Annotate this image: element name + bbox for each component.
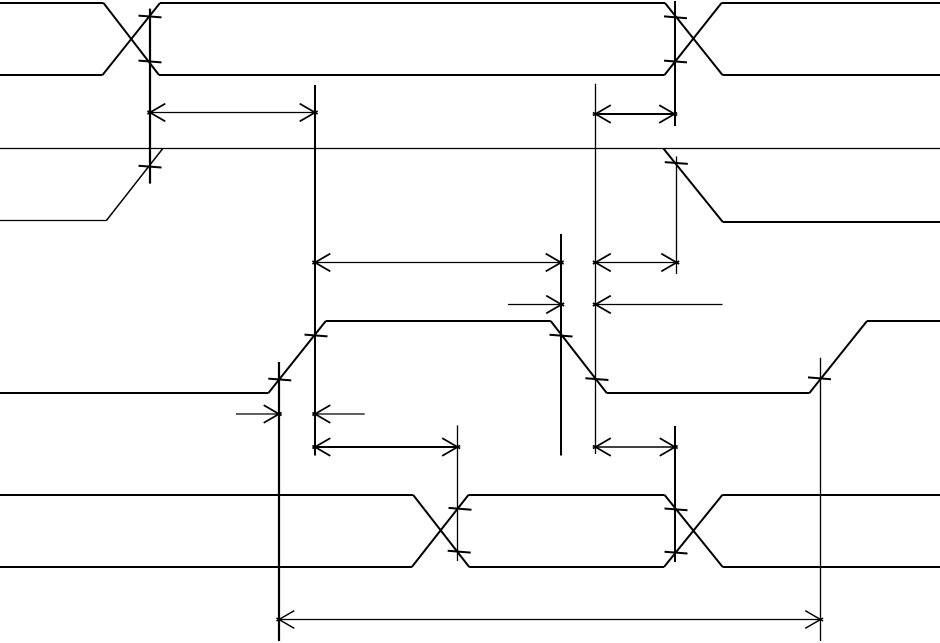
tick on V6 upper bbox=[449, 508, 472, 510]
signal3 low rail middle bbox=[607, 392, 810, 394]
bus4 bottom rail segment middle bbox=[469, 566, 664, 568]
measure line V2 at x315 bbox=[314, 85, 316, 456]
arrow A10 right head bbox=[660, 438, 678, 456]
bus4 bottom rail segment right bbox=[723, 566, 940, 568]
bus1 left crossover rising diagonal bbox=[103, 3, 161, 75]
signal2 high reference line full width bbox=[0, 148, 940, 150]
arrow A10 left head bbox=[593, 438, 611, 456]
bus1 top rail segment middle bbox=[160, 2, 665, 4]
bus4 bottom rail segment left bbox=[0, 566, 412, 568]
signal2 low rail right bbox=[723, 221, 940, 223]
bus4 right crossover rising diagonal bbox=[664, 495, 722, 567]
tick on V2 bbox=[305, 335, 328, 337]
arrow A11 right head bbox=[805, 611, 823, 629]
bus1 bottom rail segment middle bbox=[159, 74, 665, 76]
measure line V5b at x676.5 middle bbox=[676, 156, 678, 274]
arrow A3 left head bbox=[312, 254, 330, 272]
bus1 bottom rail segment right bbox=[723, 74, 940, 76]
measure line V8 at x820 bbox=[820, 358, 822, 641]
arrow A10 shaft between V4 and V5c bbox=[596, 446, 676, 448]
arrow A11 shaft between V7 and V8 bbox=[279, 619, 821, 621]
bus4 top rail segment left bbox=[0, 494, 413, 496]
arrow A1 shaft between V1 and V2 bbox=[150, 112, 315, 114]
arrow A2 left head bbox=[593, 105, 611, 123]
arrow A9 shaft between V2 and V6 bbox=[315, 446, 458, 448]
signal3 falling edge bbox=[551, 321, 607, 393]
tick on V5a lower bbox=[664, 61, 687, 63]
measure line V3 at x561.5 bbox=[560, 234, 562, 456]
bus4 right crossover falling diagonal bbox=[665, 495, 723, 567]
arrow A1 right head bbox=[300, 104, 318, 122]
tick on V5c lower bbox=[665, 552, 688, 554]
bus4 left crossover falling diagonal bbox=[413, 495, 469, 567]
tick on V5a upper bbox=[664, 16, 687, 18]
arrow A5 right head bbox=[546, 296, 564, 314]
bus4 top rail segment right bbox=[722, 494, 940, 496]
signal3 first rising edge bbox=[268, 321, 325, 393]
bus1 right crossover falling diagonal bbox=[665, 3, 723, 75]
tick on V6 lower bbox=[448, 551, 471, 553]
signal3 high rail bbox=[326, 320, 551, 322]
arrow A9 left head bbox=[312, 438, 330, 456]
signal2 low rail left bbox=[0, 220, 106, 222]
bus1 bottom rail segment left bbox=[0, 74, 103, 76]
arrow A2 shaft between V4 and V5a bbox=[596, 113, 675, 115]
measure line V5c at x675 lower bbox=[674, 426, 676, 562]
bus1 top rail segment right bbox=[722, 2, 940, 4]
signal3 high rail right bbox=[867, 320, 940, 322]
arrow A3 right head bbox=[546, 254, 564, 272]
tick on V1 at signal2 rising edge crossing bbox=[139, 166, 162, 168]
signal3 low rail left bbox=[0, 392, 268, 394]
tick on V1 upper bbox=[139, 16, 162, 18]
arrow A5 shaft into V3 bbox=[508, 304, 562, 306]
bus1 left crossover falling diagonal bbox=[104, 3, 160, 75]
measure line V1 at x150 bbox=[149, 9, 151, 184]
arrow A7 right head bbox=[264, 405, 282, 423]
tick on V7 bbox=[268, 379, 291, 381]
measure line V7 at x278.5 bbox=[278, 362, 280, 641]
arrow A7 shaft into V7 bbox=[236, 413, 279, 415]
arrow A9 right head bbox=[442, 438, 460, 456]
tick on V5c upper bbox=[665, 509, 688, 511]
arrow A6 shaft from V4 bbox=[596, 304, 723, 306]
arrow A8 shaft from V2 bbox=[315, 413, 365, 415]
bus1 top rail segment left bbox=[0, 2, 104, 4]
signal2 rising edge bbox=[106, 149, 162, 221]
arrow A2 right head bbox=[659, 105, 677, 123]
arrow A8 left head bbox=[312, 405, 330, 423]
tick on V8 bbox=[808, 377, 831, 379]
arrow A4 shaft between V4 and V5b bbox=[596, 262, 677, 264]
signal2 falling edge bbox=[663, 149, 722, 223]
tick on V4 bbox=[585, 378, 608, 380]
arrow A4 left head bbox=[593, 254, 611, 272]
arrow A11 left head bbox=[276, 611, 294, 629]
bus1 right crossover rising diagonal bbox=[665, 3, 722, 75]
tick on V3 bbox=[550, 335, 573, 337]
arrow A6 left head bbox=[593, 296, 611, 314]
measure line V5a at x675 upper bbox=[674, 1, 676, 126]
bus4 top rail segment middle bbox=[468, 494, 664, 496]
signal3 second rising edge bbox=[809, 321, 867, 393]
measure line V4 at x596 bbox=[595, 84, 597, 454]
arrow A1 left head bbox=[147, 104, 165, 122]
measure line V6 at x457 bbox=[457, 425, 459, 561]
arrow A3 shaft between V2 and V3 bbox=[315, 262, 561, 264]
tick on V5b bbox=[665, 162, 688, 164]
arrow A4 right head bbox=[661, 254, 679, 272]
tick on V1 lower bbox=[139, 61, 162, 63]
bus4 left crossover rising diagonal bbox=[412, 495, 469, 567]
